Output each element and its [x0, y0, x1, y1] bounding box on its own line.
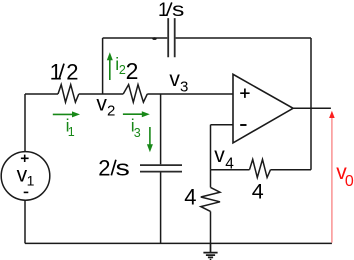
current arrow i1	[53, 113, 74, 115]
svg-text:2: 2	[66, 59, 78, 84]
svg-text:3: 3	[180, 79, 188, 96]
svg-text:1: 1	[27, 173, 35, 189]
voltage source + polarity mark	[21, 155, 29, 162]
svg-text:2: 2	[126, 58, 139, 84]
svg-text:1: 1	[158, 0, 169, 21]
svg-text:v: v	[169, 68, 180, 91]
wire: left vertical from source V1 to bottom rail	[24, 200, 26, 243]
current arrow i3	[123, 113, 144, 115]
resistor R2 value 2 zigzag	[123, 85, 147, 103]
svg-text:4: 4	[184, 185, 196, 210]
svg-text:0: 0	[345, 173, 354, 190]
wire: right vertical from top branch down to feedback node	[310, 38, 312, 170]
wire: top branch left of capacitor 1/s	[103, 37, 168, 39]
svg-text:1: 1	[68, 125, 75, 139]
wire: node v4 to feedback resistor	[211, 169, 250, 171]
svg-text:2: 2	[119, 63, 126, 77]
wire: bottom ground rail	[25, 242, 332, 244]
voltage source V1 circle	[1, 152, 50, 201]
svg-text:2: 2	[98, 155, 110, 180]
resistor R4 feedback value 4 zigzag	[250, 159, 271, 177]
ground symbol	[203, 243, 217, 259]
wire: vertical resistor bottom stub to ground rail	[210, 211, 212, 243]
voltage source - polarity mark	[24, 191, 29, 193]
junction dot on top branch	[152, 37, 156, 40]
wire: segment from R1 to node v2 and on to R2	[79, 93, 123, 95]
wire: op-amp - input stub	[211, 124, 234, 126]
svg-text:3: 3	[134, 126, 141, 140]
wire: segment from R2 through node v3 to op-amp + input	[147, 93, 233, 95]
svg-text:s: s	[116, 157, 130, 181]
capacitor C2 value 2/s plates	[140, 165, 182, 172]
wire: main horizontal left segment	[25, 93, 58, 95]
output voltage red indicator line	[331, 116, 333, 243]
svg-text:2: 2	[107, 103, 115, 120]
op-amp + input symbol	[240, 89, 249, 98]
wire: op-amp output	[293, 107, 331, 109]
wire: left vertical from main wire to source V1	[24, 94, 26, 152]
wire: feedback resistor to right vertical	[271, 169, 312, 171]
resistor R3 vertical value 4 zigzag	[201, 187, 220, 211]
svg-text:v: v	[214, 144, 225, 167]
svg-text:1: 1	[50, 59, 62, 84]
wire: top branch right of capacitor 1/s	[176, 37, 311, 39]
capacitor C1 value 1/s plates	[168, 18, 175, 57]
svg-text:4: 4	[252, 180, 264, 204]
wire: vertical resistor top stub below node v4	[210, 170, 212, 188]
svg-text:s: s	[172, 0, 184, 20]
wire: vertical from - input down to node v4	[210, 125, 212, 170]
wire: vertical from capacitor 2/s down to bottom rail	[160, 173, 162, 244]
resistor R1 value 1/2 zigzag	[58, 85, 79, 103]
current arrow i2 (upward)	[109, 59, 111, 80]
svg-text:v: v	[96, 92, 107, 115]
op-amp U1 triangle	[233, 74, 293, 143]
wire: vertical from node v3 down to capacitor 2/s	[160, 94, 162, 164]
wire: vertical from node v2 up to top branch	[102, 38, 104, 94]
current arrow into capacitor 2/s (downward)	[149, 127, 151, 146]
output voltage red arrowhead	[329, 111, 335, 118]
svg-text:4: 4	[225, 155, 234, 172]
op-amp - input symbol	[240, 124, 246, 126]
